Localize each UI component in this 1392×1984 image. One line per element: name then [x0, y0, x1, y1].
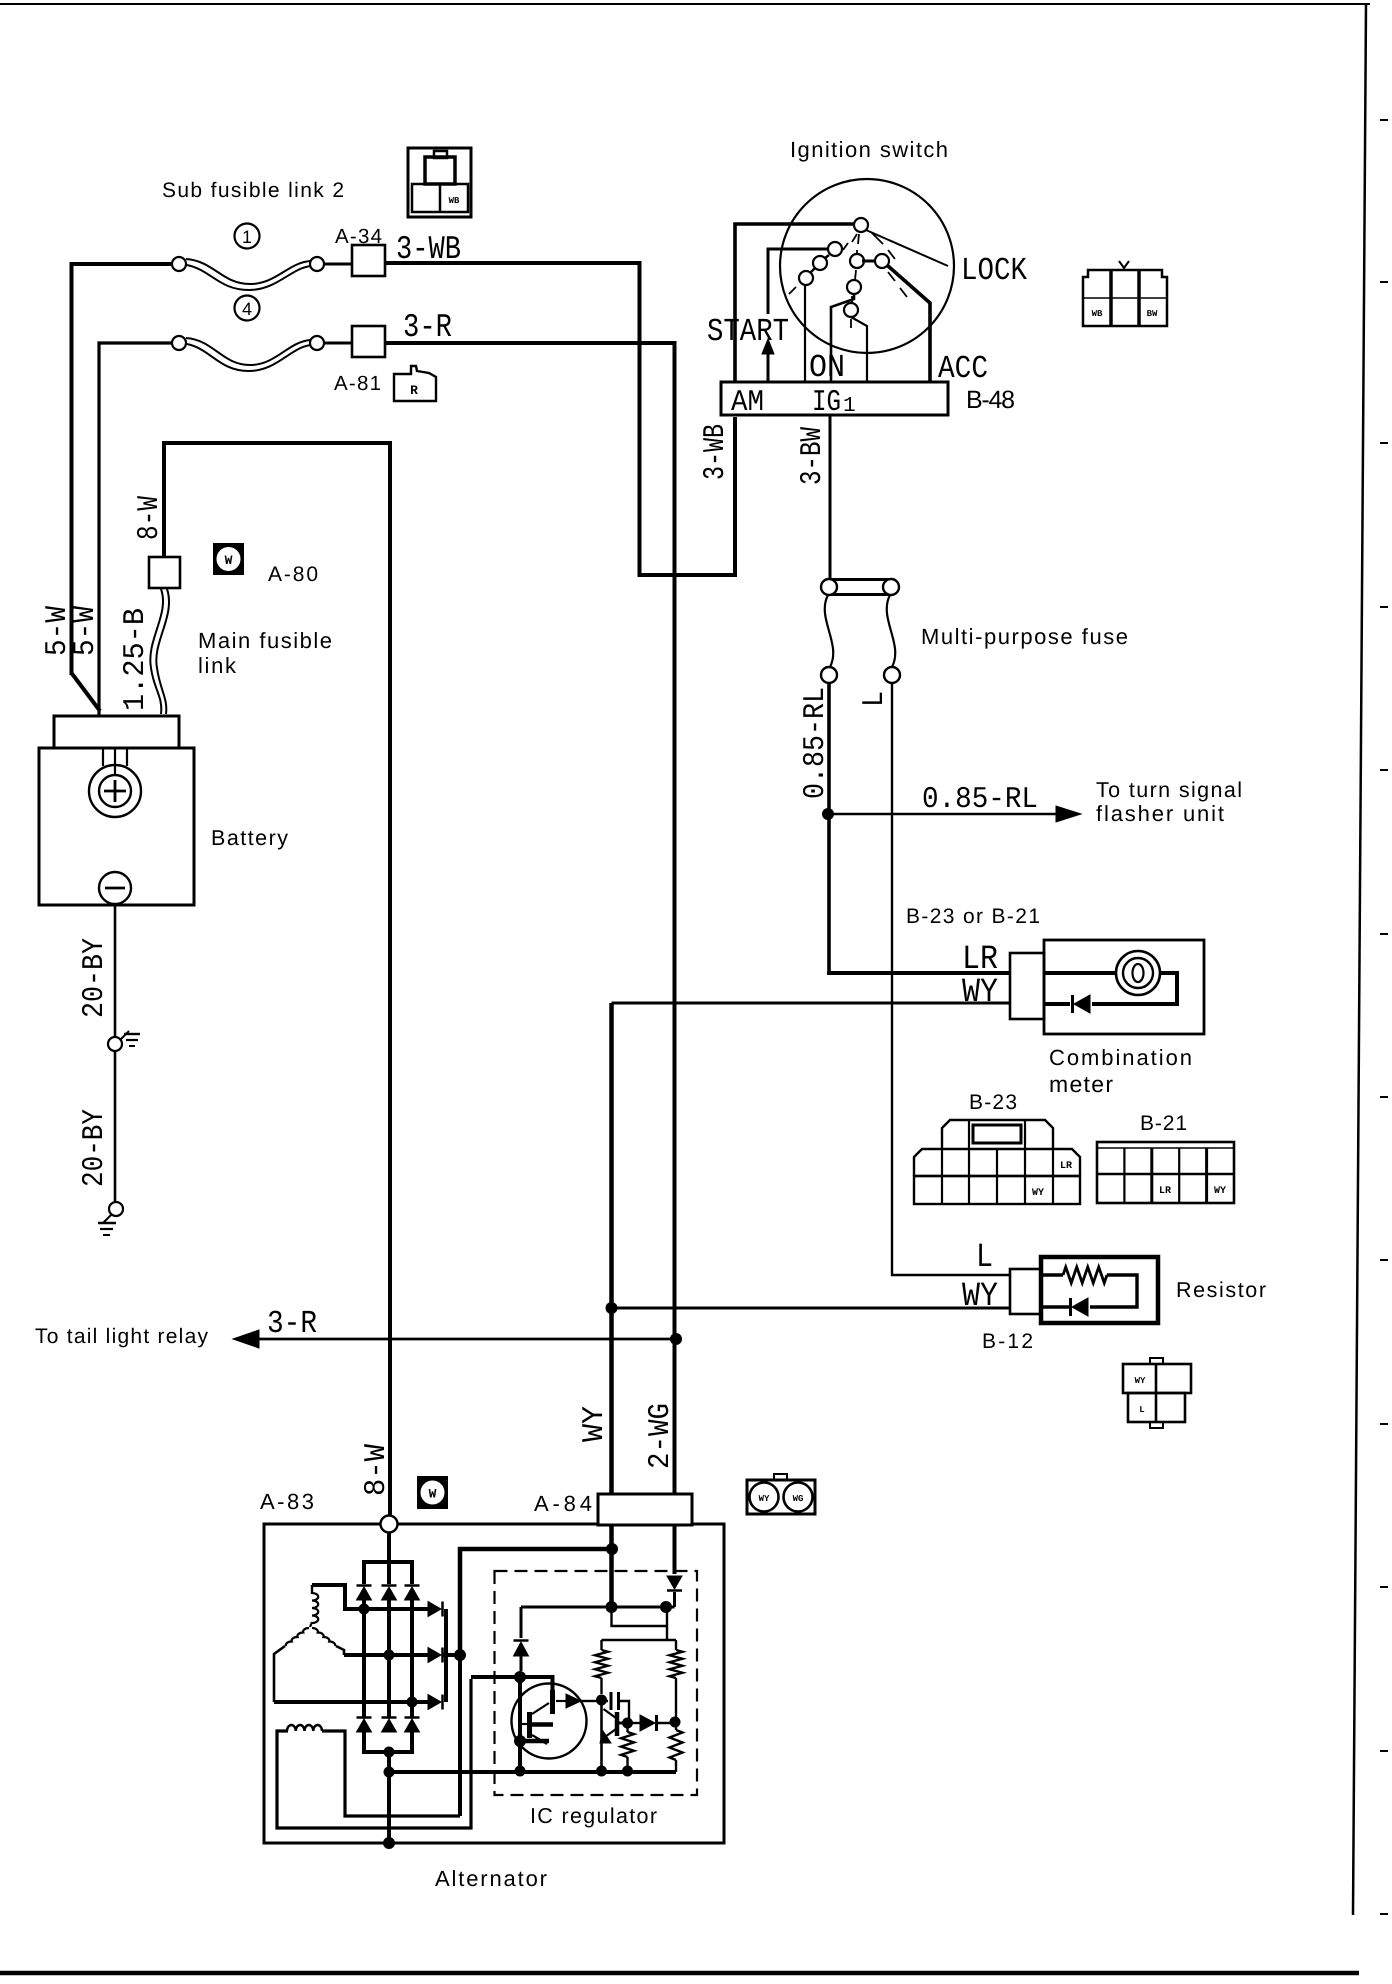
svg-text:Battery: Battery — [211, 826, 288, 850]
connector A-84 box — [598, 1494, 692, 1525]
wire ON contact leg — [804, 285, 806, 382]
svg-text:1: 1 — [843, 395, 856, 418]
ignition switch contact 7 — [847, 280, 861, 294]
fuse element left — [825, 595, 833, 667]
wire 0.85-RL from fuse — [827, 683, 831, 972]
svg-text:B-12: B-12 — [982, 1330, 1033, 1353]
svg-text:To turn signal: To turn signal — [1096, 778, 1242, 802]
svg-text:Alternator: Alternator — [435, 1866, 547, 1891]
driver base lead — [618, 1722, 627, 1725]
START direction arrow — [762, 339, 774, 354]
svg-text:20-BY: 20-BY — [78, 1109, 112, 1187]
arrow to turn signal flasher unit — [1056, 806, 1081, 822]
combination meter box — [1044, 940, 1204, 1034]
junction case ground — [383, 1837, 395, 1849]
resistor R3 — [675, 1640, 677, 1650]
connector icon A-83 W — [418, 1477, 447, 1508]
trio diode 2 — [428, 1648, 441, 1663]
connector icon WY/L — [1123, 1364, 1191, 1393]
svg-text:20-BY: 20-BY — [78, 938, 112, 1018]
wire field right to trio output — [322, 1731, 460, 1816]
driver transistor emitter with arrow — [604, 1729, 617, 1738]
wire AM feed to contact — [735, 224, 855, 415]
svg-text:3-WB: 3-WB — [699, 424, 733, 480]
svg-text:A-83: A-83 — [260, 1489, 314, 1514]
junction phase A bus1 — [359, 1604, 370, 1615]
svg-text:B-21: B-21 — [1140, 1112, 1187, 1135]
junction transistor emitter — [514, 1735, 526, 1747]
junction rectifier negative — [384, 1747, 395, 1758]
svg-text:1: 1 — [242, 227, 252, 247]
wire 8-W riser to alternator feed — [164, 443, 390, 1516]
page border top — [0, 3, 1370, 5]
wire stator left leg — [274, 1646, 285, 1702]
svg-text:B-23 or B-21: B-23 or B-21 — [906, 905, 1040, 928]
svg-text:WY: WY — [759, 1494, 770, 1504]
wire 3-WB row horizontal left — [72, 264, 173, 675]
svg-text:WY: WY — [578, 1406, 612, 1442]
svg-text:0.85-RL: 0.85-RL — [799, 687, 833, 799]
stator phase B wire — [344, 1653, 428, 1657]
junction regulator node B — [660, 1601, 672, 1613]
wire regulator top rail — [521, 1606, 675, 1609]
fusible link 1 left terminal — [172, 257, 186, 271]
connector A-34 square — [352, 245, 385, 276]
wire to tail light relay — [243, 1338, 676, 1341]
wire field sense riser — [460, 1549, 610, 1655]
svg-text:Multi-purpose fuse: Multi-purpose fuse — [921, 624, 1128, 649]
power transistor T2 base bar — [550, 1690, 555, 1714]
svg-text:3-BW: 3-BW — [796, 427, 830, 485]
wire contact leg inner right — [851, 317, 867, 382]
junction trio output — [454, 1649, 466, 1661]
driver transistor base bar — [615, 1712, 620, 1736]
wire T2 to R1 node — [596, 1700, 602, 1702]
rectifier positive bracket — [364, 1562, 412, 1584]
svg-text:ON: ON — [809, 349, 845, 386]
wire 3-BW from IG1 pin to fuse — [829, 415, 832, 580]
svg-text:2-WG: 2-WG — [644, 1403, 678, 1469]
svg-text:8-W: 8-W — [360, 1444, 394, 1496]
connector icon WY/WG — [747, 1480, 815, 1514]
rectifier diode bottom 3 — [405, 1719, 420, 1732]
wire rail step 1 — [612, 1607, 668, 1626]
multi-purpose fuse holder top — [829, 578, 891, 581]
svg-text:A-80: A-80 — [268, 563, 318, 586]
svg-text:L: L — [976, 1239, 993, 1277]
svg-text:LOCK: LOCK — [961, 252, 1028, 289]
svg-text:IG: IG — [812, 386, 841, 420]
svg-text:L: L — [1139, 1405, 1144, 1415]
svg-text:AM: AM — [731, 386, 764, 420]
svg-text:L: L — [858, 691, 892, 707]
wire 3-R to tail light junction — [673, 343, 677, 1339]
wire rail step 2 — [666, 1607, 668, 1640]
power transistor T1 base lead — [520, 1723, 527, 1725]
wire fusible link 1 to connector A-34 — [324, 263, 352, 266]
stator phase A wire — [312, 1585, 428, 1609]
driver transistor collector — [604, 1709, 617, 1718]
resistor box — [1041, 1257, 1158, 1323]
junction ground bus rectifier — [384, 1767, 395, 1778]
wire sense to field excitation — [458, 1655, 462, 1816]
wire fusible link 4 to connector A-81 — [324, 342, 352, 345]
wire divider top rail — [602, 1639, 677, 1641]
battery negative terminal — [99, 872, 131, 904]
alternator ground bus — [388, 1770, 676, 1774]
svg-text:B-48: B-48 — [966, 386, 1015, 414]
rectifier diode top 2 — [382, 1587, 397, 1600]
resistor connector B-12 — [1010, 1269, 1041, 1314]
wire stator right leg — [336, 1646, 344, 1655]
fusible link 4 right terminal — [310, 336, 324, 350]
circled number 1 — [235, 224, 260, 249]
ignition switch contact 4 — [799, 271, 813, 285]
junction driver ground — [596, 1766, 607, 1777]
ground terminal bottom — [109, 1202, 123, 1216]
wire 2-WG into regulator — [673, 1525, 677, 1574]
circled number 4 — [235, 296, 260, 321]
ignition switch contact 8 — [844, 303, 858, 317]
regulator input diode — [667, 1576, 682, 1589]
ignition switch contact 3 — [810, 268, 815, 273]
svg-text:0.85-RL: 0.85-RL — [922, 783, 1038, 817]
fuse element right — [887, 595, 895, 667]
resistor diode — [1072, 1298, 1088, 1316]
svg-text:Resistor: Resistor — [1176, 1278, 1266, 1302]
junction regulator node L — [606, 1601, 618, 1613]
charge warning lamp — [1116, 951, 1160, 995]
wire 5-W diagonal into battery terminal — [72, 673, 101, 711]
rectifier diode top 1 — [357, 1587, 372, 1600]
wire START contact leg — [768, 249, 829, 314]
rectifier diode bottom 2 — [382, 1719, 397, 1732]
wire 20-BY upper — [114, 904, 117, 1037]
svg-text:BW: BW — [1147, 309, 1158, 319]
junction divider node — [670, 1717, 681, 1728]
resistor element — [1041, 1273, 1063, 1276]
connector icon A-80 W — [214, 544, 243, 574]
svg-text:3-R: 3-R — [267, 1305, 317, 1342]
svg-text:WY: WY — [962, 974, 998, 1012]
ignition switch contact 1 — [854, 218, 868, 232]
svg-text:WY: WY — [962, 1278, 998, 1316]
wire rectifier to case ground — [387, 1752, 391, 1843]
combination meter connector — [1010, 953, 1044, 1019]
svg-text:flasher unit: flasher unit — [1096, 801, 1224, 826]
svg-text:W: W — [225, 553, 233, 568]
wire 20-BY lower — [114, 1051, 117, 1202]
IC regulator dashed box — [495, 1571, 698, 1795]
wire WY to combination meter — [612, 1002, 1013, 1005]
connector icon B-48 pin layout — [1083, 270, 1167, 326]
junction 3-R tail light — [670, 1333, 682, 1345]
wire 2-WG from junction to alternator — [673, 1339, 677, 1494]
fusible link 1 element — [186, 259, 310, 284]
wire field left to regulator return — [277, 1679, 471, 1828]
svg-text:WG: WG — [793, 1494, 804, 1504]
svg-text:meter: meter — [1049, 1071, 1113, 1097]
field winding — [287, 1725, 322, 1731]
svg-text:WY: WY — [1032, 1188, 1044, 1199]
wire field node rail — [471, 1675, 520, 1679]
wire ACC contact leg — [888, 266, 930, 382]
rectifier diode bottom 1 — [357, 1719, 372, 1732]
svg-text:W: W — [429, 1487, 437, 1502]
svg-text:WY: WY — [1214, 1186, 1226, 1197]
wire WY branch to resistor — [612, 1307, 1011, 1310]
ignition switch contact 5 — [850, 254, 864, 268]
wire WY into regulator — [609, 1525, 614, 1607]
connector icon A-81 tag with R — [394, 366, 436, 401]
svg-text:WB: WB — [1092, 309, 1103, 319]
margin tick marks — [1380, 119, 1388, 121]
wire driver column — [600, 1700, 603, 1771]
rectifier diode top 3 — [405, 1587, 420, 1600]
main fusible link element — [150, 589, 163, 714]
junction field node — [514, 1671, 526, 1683]
junction turn signal branch — [822, 808, 834, 820]
svg-text:B-23: B-23 — [969, 1091, 1017, 1114]
resistor R4 — [675, 1722, 677, 1730]
svg-text:A-84: A-84 — [534, 1491, 592, 1516]
wire emitter to ground — [518, 1677, 522, 1771]
junction R1 bottom — [596, 1695, 607, 1706]
rectifier negative bracket — [364, 1732, 412, 1752]
power transistor T1 collector — [532, 1703, 549, 1714]
battery terminal connector bar — [54, 716, 179, 748]
trio cathode bus — [444, 1609, 448, 1702]
power transistor T1 base bar — [527, 1712, 532, 1738]
resistor R2 — [626, 1723, 628, 1732]
junction emitter ground — [515, 1766, 526, 1777]
wire IG1 contact leg — [831, 294, 854, 382]
power transistor link bar — [531, 1722, 553, 1727]
stator phase C wire — [274, 1700, 428, 1704]
svg-text:START: START — [707, 313, 789, 350]
flyback diode — [520, 1607, 523, 1638]
fusible link 1 right terminal — [310, 257, 324, 271]
fuse bottom left terminal — [821, 667, 837, 683]
wire WY trunk from meter to alternator — [609, 1003, 614, 1494]
zener diode — [627, 1722, 640, 1724]
junction phase C bus3 — [407, 1697, 418, 1708]
svg-text:A-34: A-34 — [335, 225, 382, 248]
svg-text:To tail light relay: To tail light relay — [35, 1325, 209, 1348]
power transistor emitter bar — [520, 1739, 549, 1744]
svg-text:WB: WB — [449, 196, 460, 206]
svg-text:8-W: 8-W — [133, 496, 167, 540]
wire LR to combination meter — [829, 972, 1012, 973]
junction phase B bus2 — [384, 1650, 395, 1661]
stator coil phase C right — [312, 1628, 335, 1646]
meter diode — [1044, 1002, 1070, 1006]
stator coil phase B left — [286, 1628, 309, 1646]
junction WY branch — [606, 1302, 618, 1314]
fusible link 4 element — [186, 338, 310, 365]
page border right — [1353, 4, 1366, 1915]
connector A-81 square — [352, 326, 385, 357]
wire 3-WB to ignition switch — [385, 263, 735, 575]
connector A-80 square — [149, 557, 180, 588]
svg-text:LR: LR — [1159, 1186, 1171, 1197]
meter lamp wire — [1044, 971, 1116, 975]
power darlington collector step — [520, 1677, 553, 1691]
svg-text:4: 4 — [242, 299, 252, 319]
capacitor — [602, 1700, 609, 1702]
svg-text:link: link — [198, 653, 237, 678]
rectifier bus 3 — [410, 1598, 414, 1718]
ignition switch body circle — [780, 179, 954, 353]
battery positive terminal — [102, 748, 104, 766]
junction zener node — [622, 1718, 633, 1729]
fuse top left terminal — [821, 579, 837, 595]
page border bottom — [0, 1971, 1359, 1976]
svg-text:IC regulator: IC regulator — [530, 1804, 657, 1828]
alternator B+ terminal — [381, 1516, 398, 1533]
fuse bottom right terminal — [884, 667, 900, 683]
trio diode 1 — [428, 1602, 441, 1617]
svg-text:A-81: A-81 — [334, 372, 381, 395]
rectifier bus 2 — [387, 1598, 391, 1718]
svg-text:Ignition switch: Ignition switch — [790, 137, 948, 162]
ground connection upper — [108, 1037, 122, 1051]
power transistor T2 emitter arrow — [556, 1700, 566, 1702]
svg-text:1.25-B: 1.25-B — [119, 608, 153, 711]
connector B-48 box — [721, 382, 948, 415]
fusible link 4 left terminal — [172, 336, 186, 350]
junction WY sense — [606, 1543, 618, 1555]
ignition switch LOCK pointer — [866, 230, 948, 266]
trio diode 3 — [428, 1695, 441, 1710]
arrow to tail light relay — [233, 1330, 259, 1348]
wire 0.85-RL branch to flasher — [828, 813, 1062, 816]
svg-text:R: R — [410, 383, 418, 398]
junction R2 ground — [622, 1766, 633, 1777]
ignition switch contact 6 — [862, 260, 877, 263]
ignition switch position dashes — [852, 234, 857, 242]
connector B-21 pin layout — [1097, 1142, 1234, 1203]
wire R3 to divider node — [675, 1716, 677, 1722]
connector icon WB fuse block — [408, 148, 471, 217]
wire 3-R row horizontal left — [99, 343, 172, 716]
stator star point — [310, 1622, 312, 1627]
connector B-23 pin layout — [942, 1120, 1053, 1149]
stator coil phase A — [311, 1585, 313, 1594]
svg-text:5-W: 5-W — [69, 606, 103, 656]
svg-text:WY: WY — [1135, 1376, 1146, 1386]
power transistor circle — [512, 1684, 587, 1759]
wire trio output middle — [443, 1653, 460, 1657]
resistor R1 — [600, 1640, 602, 1650]
alternator box — [264, 1524, 724, 1843]
battery box — [39, 748, 194, 905]
wire L from fuse to resistor — [892, 683, 1010, 1275]
power transistor T1 emitter — [532, 1735, 547, 1744]
ignition switch contact 2 — [820, 255, 829, 262]
wire 3-R horizontal to right corner — [385, 341, 677, 345]
svg-text:LR: LR — [1060, 1161, 1072, 1172]
svg-text:3-R: 3-R — [403, 309, 452, 346]
fuse top right terminal — [883, 579, 899, 595]
rectifier bus 1 — [362, 1598, 366, 1718]
